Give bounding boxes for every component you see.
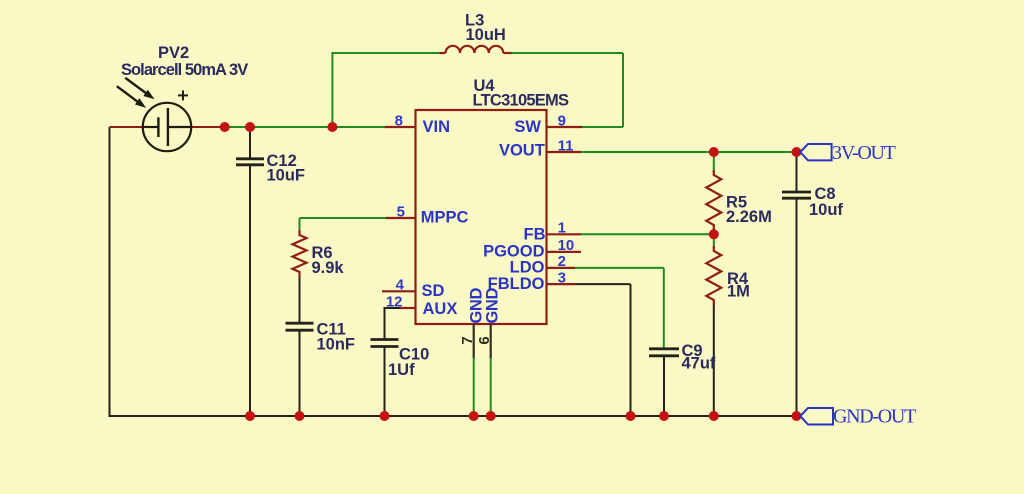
junction: [380, 411, 390, 421]
pin stub VIN 8: [385, 126, 416, 128]
light arrow 2: [117, 86, 137, 101]
wire: [299, 277, 301, 322]
wire: [581, 233, 714, 235]
svg-text:9.9k: 9.9k: [312, 259, 345, 277]
wire: [663, 355, 665, 416]
svg-text:2: 2: [558, 253, 566, 270]
wire: [249, 127, 251, 158]
svg-text:VIN: VIN: [423, 118, 451, 136]
junction: [709, 411, 719, 421]
pin stub FB 1: [547, 233, 581, 235]
svg-text:47uf: 47uf: [682, 355, 716, 373]
svg-text:AUX: AUX: [423, 300, 458, 318]
wire: [713, 228, 715, 246]
junction: [245, 122, 255, 132]
svg-text:7: 7: [459, 336, 476, 344]
capacitor C10: [371, 338, 399, 341]
svg-text:2.26M: 2.26M: [726, 208, 772, 226]
light arrow 1: [125, 78, 145, 93]
svg-text:10uF: 10uF: [267, 166, 306, 184]
wire: [473, 358, 475, 416]
wire: [299, 218, 301, 233]
pin stub MPPC 5: [386, 217, 416, 219]
wire: [109, 127, 111, 417]
net flag GND-OUT: [800, 408, 833, 425]
junction: [469, 411, 479, 421]
svg-text:GND: GND: [484, 288, 502, 324]
svg-text:11: 11: [558, 137, 574, 154]
svg-text:Solarcell 50mA 3V: Solarcell 50mA 3V: [121, 61, 248, 79]
capacitor C9: [649, 347, 679, 350]
capacitor C12: [236, 157, 264, 160]
svg-text:SW: SW: [514, 118, 541, 136]
solar cell PV2 pin stub left: [110, 126, 144, 128]
svg-text:10uH: 10uH: [466, 26, 506, 44]
svg-text:8: 8: [395, 113, 403, 130]
wire: [299, 330, 301, 416]
junction: [659, 411, 669, 421]
svg-text:MPPC: MPPC: [421, 208, 469, 226]
wire: [663, 268, 665, 348]
svg-text:GND-OUT: GND-OUT: [833, 406, 916, 428]
pin stub GND 7: [473, 324, 475, 358]
resistor R4: [706, 246, 721, 305]
junction: [245, 411, 255, 421]
inductor L3: [440, 52, 446, 54]
junction: [486, 411, 496, 421]
wire: [796, 152, 798, 191]
svg-text:3V-OUT: 3V-OUT: [832, 142, 896, 164]
pin stub PGOOD 10: [547, 251, 581, 253]
svg-text:3: 3: [558, 269, 566, 286]
junction: [709, 147, 719, 157]
svg-text:12: 12: [386, 293, 403, 310]
pin stub GND 6: [490, 324, 492, 358]
svg-text:FB: FB: [524, 225, 546, 243]
svg-text:4: 4: [396, 277, 405, 294]
svg-text:6: 6: [476, 336, 493, 344]
svg-text:SD: SD: [422, 282, 445, 300]
capacitor C11: [286, 322, 314, 325]
junction: [327, 122, 337, 132]
IC U4 body: [416, 110, 547, 324]
svg-text:10: 10: [558, 237, 575, 254]
junction: [626, 411, 636, 421]
wire: [713, 303, 715, 416]
wire: [511, 52, 624, 54]
wire: [249, 164, 251, 416]
solar cell plus sign: [178, 94, 188, 96]
svg-text:1M: 1M: [727, 283, 750, 301]
svg-text:LDO: LDO: [510, 259, 545, 277]
wire: [225, 126, 385, 128]
svg-text:1Uf: 1Uf: [388, 361, 415, 379]
pin stub SW 9: [547, 126, 582, 128]
svg-text:10uf: 10uf: [809, 201, 843, 219]
wire: [109, 415, 798, 417]
solar cell PV2 body: [143, 103, 191, 151]
junction: [709, 229, 719, 239]
wire: [385, 307, 401, 309]
solar cell PV2 pin stub right: [192, 126, 226, 128]
pin stub FBLDO 3: [547, 283, 575, 285]
svg-text:LTC3105EMS: LTC3105EMS: [473, 92, 570, 110]
resistor R5: [706, 170, 721, 230]
resistor R6: [293, 230, 307, 277]
svg-text:PV2: PV2: [158, 44, 189, 62]
wire: [490, 358, 492, 416]
pin stub AUX 12: [400, 307, 416, 309]
wire: [575, 126, 623, 128]
wire: [331, 52, 440, 54]
wire: [575, 267, 664, 269]
junction: [295, 411, 305, 421]
wire: [575, 283, 631, 285]
svg-text:1: 1: [558, 220, 566, 237]
wire: [796, 198, 798, 417]
wire: [581, 151, 797, 153]
pin stub VOUT 11: [547, 151, 581, 153]
junction: [792, 411, 802, 421]
junction: [220, 122, 230, 132]
wire: [630, 284, 632, 416]
wire: [300, 217, 387, 219]
svg-text:10nF: 10nF: [317, 335, 356, 353]
wire: [384, 307, 386, 339]
pin stub LDO 2: [547, 267, 575, 269]
wire: [622, 53, 624, 127]
capacitor C8: [782, 191, 811, 194]
net flag 3V-OUT: [800, 144, 831, 160]
junction: [792, 147, 802, 157]
wire: [331, 53, 333, 127]
svg-text:9: 9: [558, 113, 566, 130]
wire: [713, 152, 715, 172]
svg-text:VOUT: VOUT: [499, 142, 545, 160]
pin stub SD 4: [382, 290, 416, 292]
svg-text:5: 5: [397, 204, 405, 221]
wire: [384, 346, 386, 417]
